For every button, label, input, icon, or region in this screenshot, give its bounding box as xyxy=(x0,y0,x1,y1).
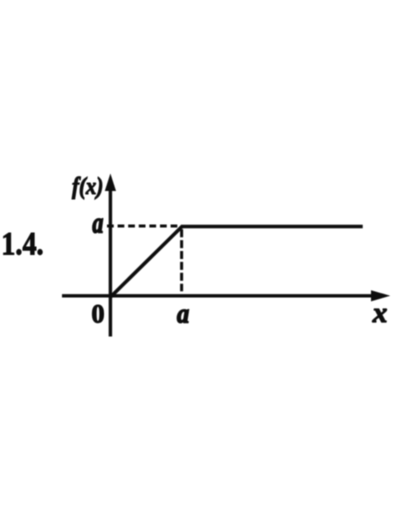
y-axis arrowhead xyxy=(105,174,116,192)
plateau segment of f(x) at height a xyxy=(181,225,363,228)
dashed horizontal guide at y=a xyxy=(107,225,178,228)
svg-text:x: x xyxy=(372,297,388,328)
dashed vertical guide at x=a xyxy=(180,229,183,291)
x-axis horizontal line xyxy=(62,294,375,297)
svg-text:a: a xyxy=(92,207,103,240)
ramp segment of f(x) from origin to (a,a) xyxy=(111,227,183,298)
svg-text:1.4.: 1.4. xyxy=(1,226,43,262)
svg-text:0: 0 xyxy=(91,300,104,329)
y-axis f(x) vertical line xyxy=(109,182,112,337)
x-axis arrowhead xyxy=(371,290,390,301)
svg-text:a: a xyxy=(177,298,189,328)
svg-text:f(x): f(x) xyxy=(72,173,103,200)
